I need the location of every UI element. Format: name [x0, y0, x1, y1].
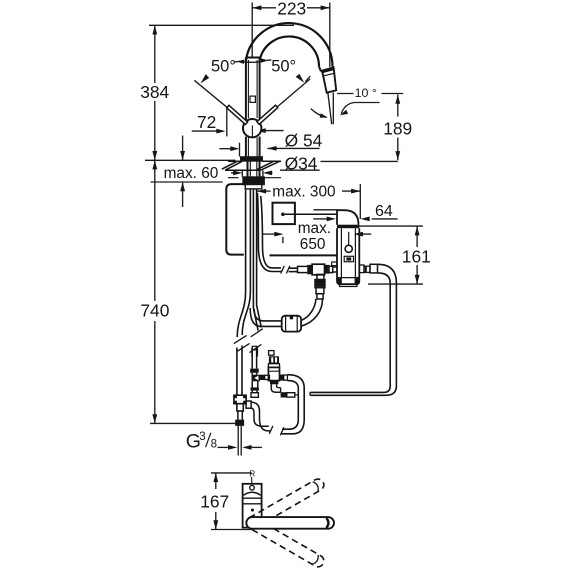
- svg-text:189: 189: [383, 119, 412, 139]
- svg-text:72: 72: [197, 112, 216, 132]
- svg-text:max.: max.: [298, 220, 331, 237]
- svg-text:8: 8: [211, 438, 217, 450]
- svg-text:max. 300: max. 300: [272, 183, 335, 200]
- svg-text:161: 161: [402, 246, 431, 266]
- svg-text:50°: 50°: [271, 58, 296, 76]
- svg-text:max. 60: max. 60: [164, 165, 219, 182]
- svg-text:Ø34: Ø34: [285, 154, 318, 174]
- svg-text:650: 650: [300, 236, 326, 253]
- svg-text:Ø 54: Ø 54: [285, 130, 323, 150]
- svg-text:167: 167: [200, 491, 229, 511]
- svg-text:223: 223: [277, 0, 306, 19]
- svg-text:10 °: 10 °: [355, 86, 377, 100]
- svg-text:50°: 50°: [211, 58, 236, 76]
- svg-text:3: 3: [199, 431, 205, 443]
- svg-text:740: 740: [140, 301, 169, 321]
- svg-text:64: 64: [375, 203, 393, 220]
- svg-text:384: 384: [140, 82, 169, 102]
